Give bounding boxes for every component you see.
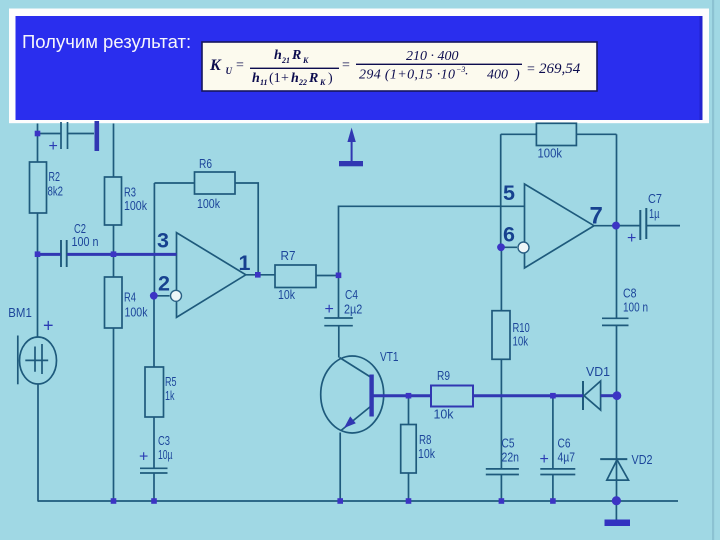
svg-text:BM1: BM1 (8, 306, 32, 320)
power symbol arrow (347, 128, 355, 143)
resistor R7 (275, 265, 316, 288)
wire VD1 to right column (601, 394, 617, 397)
wire right column down from feedback (616, 134, 618, 224)
ground bar (605, 520, 631, 527)
svg-text:7: 7 (590, 203, 603, 230)
junction rail C5 (499, 498, 505, 504)
svg-text:K: K (209, 57, 222, 74)
wire R6 right lead and down to output (235, 183, 258, 275)
formula (209, 48, 581, 87)
junction VD1 anode (613, 391, 622, 400)
svg-text:10k: 10k (278, 288, 296, 302)
svg-text:R4: R4 (124, 291, 136, 305)
wire output junction to C7 (617, 225, 640, 227)
power symbol bar (339, 161, 363, 166)
junction R9-VD1-C6 (550, 393, 556, 399)
svg-text:100 n: 100 n (623, 301, 648, 315)
wire R5 to C3 (153, 417, 155, 468)
svg-text:R5: R5 (165, 375, 177, 389)
svg-text:): ) (328, 71, 333, 86)
wire right column to C8 (616, 225, 618, 318)
wire pin2 (153, 295, 170, 297)
header white frame (9, 9, 709, 124)
wire C8 to VD1 node (616, 325, 618, 395)
wire base node to R8 (408, 396, 410, 425)
svg-text:C6: C6 (558, 437, 571, 451)
svg-text:100k: 100k (197, 197, 221, 211)
BM1 inner capacitor (25, 344, 48, 374)
svg-text:10k: 10k (513, 335, 529, 349)
VT1 emitter arrow (344, 416, 356, 428)
wire R6 left branch vertical to pin2 (153, 183, 155, 296)
wire ground stub (615, 501, 617, 520)
svg-text:R3: R3 (124, 186, 136, 200)
svg-text:=: = (236, 58, 244, 73)
wire C2 to op-amp U1 pin3 (67, 253, 176, 256)
junction rail R8 (406, 498, 412, 504)
svg-text:21: 21 (281, 56, 290, 65)
thick signal wires (38, 254, 617, 395)
wire C4 to VT1 collector (338, 326, 340, 358)
wire C5 to rail (500, 475, 502, 502)
wire R2 bottom to node A (37, 213, 39, 254)
wire R3 bottom to node B (113, 225, 115, 254)
ground rail wire (38, 500, 679, 502)
junction U2 output (612, 222, 620, 230)
svg-text:VD2: VD2 (632, 453, 653, 467)
wire C6 node down (552, 396, 554, 469)
svg-text:1k: 1k (165, 389, 175, 403)
battery thick bar C1 (95, 121, 100, 151)
diode VD2 cathode bar (600, 458, 627, 460)
resistor R6 (195, 172, 236, 194)
resistor R2 (30, 162, 47, 213)
wire pin6 (501, 246, 517, 248)
svg-text:C3: C3 (158, 434, 170, 448)
svg-text:294 (1+0,15 ·10: 294 (1+0,15 ·10 (359, 68, 455, 83)
resistor R5 (145, 367, 164, 417)
svg-text:C8: C8 (623, 287, 637, 301)
svg-text:C7: C7 (648, 192, 662, 206)
VT1 collector diagonal (340, 358, 371, 378)
svg-text:K: K (319, 78, 326, 87)
svg-text:+: + (325, 301, 334, 318)
wire op-amp U2 feedback left (500, 134, 502, 247)
svg-text:C5: C5 (502, 437, 515, 451)
wire C7 to out (647, 225, 680, 227)
diode VD1 triangle (584, 381, 601, 410)
wire R7 right lead (316, 275, 339, 277)
capacitor C4 plates (324, 318, 353, 326)
svg-text:210 · 400: 210 · 400 (406, 49, 459, 64)
junction node B (111, 251, 117, 257)
wire pin6 node down to R10 (500, 247, 502, 310)
capacitor C2 plates (61, 240, 67, 267)
svg-text:4µ7: 4µ7 (558, 451, 576, 465)
op-amp U1 inverting bubble (171, 290, 182, 301)
svg-text:h: h (252, 71, 260, 86)
svg-text:R: R (291, 48, 301, 63)
wire R6 left lead (154, 182, 194, 184)
wire C6 to rail (552, 475, 554, 502)
wire R8 to rail (408, 473, 410, 501)
svg-text:10k: 10k (418, 447, 436, 461)
right edge line (712, 0, 714, 540)
resistor R9 (431, 386, 473, 407)
svg-text:Получим результат:: Получим результат: (22, 31, 191, 52)
svg-text:K: K (302, 56, 309, 65)
wire up and across to op-amp U2 pin5 (339, 206, 525, 275)
wire R3 top from header (113, 124, 115, 178)
junction pin6 (497, 243, 505, 251)
svg-text:8k2: 8k2 (48, 185, 64, 199)
resistor R3 (105, 177, 122, 225)
svg-text:+: + (627, 230, 636, 247)
wire R10 down to C5 crossing signal wire (500, 359, 502, 469)
wire node A down to BM1 (37, 254, 39, 337)
svg-text:22n: 22n (502, 451, 520, 465)
svg-text:100k: 100k (125, 306, 149, 320)
svg-text:10k: 10k (434, 408, 455, 422)
svg-text:100k: 100k (538, 147, 563, 161)
VT1 emitter diagonal (341, 407, 371, 431)
svg-text:+: + (540, 451, 549, 468)
capacitor C1 plates (61, 122, 68, 149)
wire C3 to rail (153, 473, 155, 501)
svg-text:R9: R9 (437, 369, 450, 383)
svg-text:h: h (274, 48, 282, 63)
junction R7-C4 (336, 273, 342, 279)
wire BM1 bottom to rail (37, 384, 40, 501)
svg-text:(1: (1 (269, 71, 281, 86)
header blue box (16, 16, 703, 120)
junction rail C3 (151, 498, 157, 504)
svg-text:2µ2: 2µ2 (344, 303, 362, 317)
resistor R8 (401, 425, 417, 474)
power symbol stem (351, 140, 353, 161)
junction rail C6 (550, 498, 556, 504)
resistor R10 (492, 311, 510, 360)
svg-text:·: · (465, 68, 469, 83)
capacitor C6 plates (540, 469, 575, 475)
wire VT1 base lead (374, 394, 432, 397)
op-amp U2 inverting bubble (518, 242, 529, 253)
wire pin2 node down to R5 (153, 296, 155, 367)
junction rail VT1 (337, 498, 343, 504)
wire node A to C2 (38, 253, 61, 256)
junction rail ground (612, 496, 621, 505)
microphone BM1 circle (20, 337, 57, 384)
wire VD1 node down to VD2 (616, 396, 618, 459)
junction rail R4 (111, 498, 117, 504)
svg-text:5: 5 (503, 181, 515, 205)
transistor VT1 body circle (321, 356, 384, 433)
svg-text:100 n: 100 n (72, 235, 99, 249)
svg-text:C2: C2 (74, 222, 86, 236)
svg-text:R8: R8 (419, 433, 432, 447)
junction base node (406, 393, 412, 399)
capacitor C3 plates (140, 468, 168, 473)
op-amp U2 triangle (525, 184, 595, 268)
wire VT1 emitter to rail (339, 433, 341, 502)
resistor R4 (105, 277, 123, 328)
BM1 membrane line (17, 336, 19, 385)
svg-text:R: R (308, 71, 318, 86)
svg-text:VT1: VT1 (380, 350, 399, 364)
svg-text:R7: R7 (281, 249, 296, 263)
svg-text:+: + (139, 449, 148, 466)
svg-text:+: + (49, 138, 58, 155)
capacitor C7 plates (640, 208, 646, 240)
wire feedback resistor leads (501, 133, 617, 135)
svg-text:100k: 100k (124, 199, 148, 213)
svg-text:=: = (527, 62, 535, 77)
svg-text:269,54: 269,54 (539, 61, 581, 77)
svg-text:10µ: 10µ (158, 448, 173, 462)
junction pin2 (150, 292, 158, 300)
wire R9 to VD1 (473, 394, 583, 397)
svg-text:1µ: 1µ (649, 207, 660, 221)
wire op-amp U1 output (246, 274, 275, 276)
diode VD2 triangle (607, 460, 629, 480)
svg-text:R10: R10 (513, 321, 530, 335)
svg-text:C4: C4 (345, 288, 358, 302)
wire top left vertical into R2 (37, 124, 39, 163)
wire junction to C4 (338, 276, 340, 319)
svg-text:+: + (281, 71, 289, 86)
svg-text:22: 22 (298, 78, 307, 87)
op-amp U1 triangle (177, 233, 246, 318)
diode VD1 cathode bar (582, 381, 584, 410)
wire op-amp U2 output (594, 225, 617, 227)
svg-text:R2: R2 (49, 170, 61, 184)
wire VD2 to rail (616, 460, 618, 501)
svg-text:6: 6 (503, 223, 515, 247)
capacitor C8 plates (602, 318, 629, 325)
capacitor C5 plates (486, 469, 519, 475)
svg-text:2: 2 (158, 272, 170, 296)
junction top left (35, 131, 41, 137)
formula box (202, 42, 597, 91)
svg-text:U: U (226, 66, 233, 76)
wire node B to R4 (113, 254, 115, 277)
svg-text:+: + (43, 316, 54, 336)
svg-text:R6: R6 (199, 157, 212, 171)
svg-text:=: = (342, 58, 350, 73)
wire R4 bottom to rail (113, 328, 115, 501)
svg-text:3: 3 (157, 229, 169, 253)
junction U1 output (255, 272, 261, 278)
svg-text:VD1: VD1 (586, 365, 610, 379)
svg-text:11: 11 (260, 78, 268, 87)
junction node A (35, 251, 41, 257)
svg-text:): ) (514, 68, 520, 83)
VT1 base bar (369, 375, 373, 417)
svg-text:1: 1 (239, 251, 251, 275)
svg-text:400: 400 (487, 68, 508, 83)
wire C1 to battery bar (68, 133, 94, 135)
wire top cap segment (38, 133, 61, 135)
svg-text:h: h (291, 71, 299, 86)
resistor R11 feedback (536, 123, 576, 145)
